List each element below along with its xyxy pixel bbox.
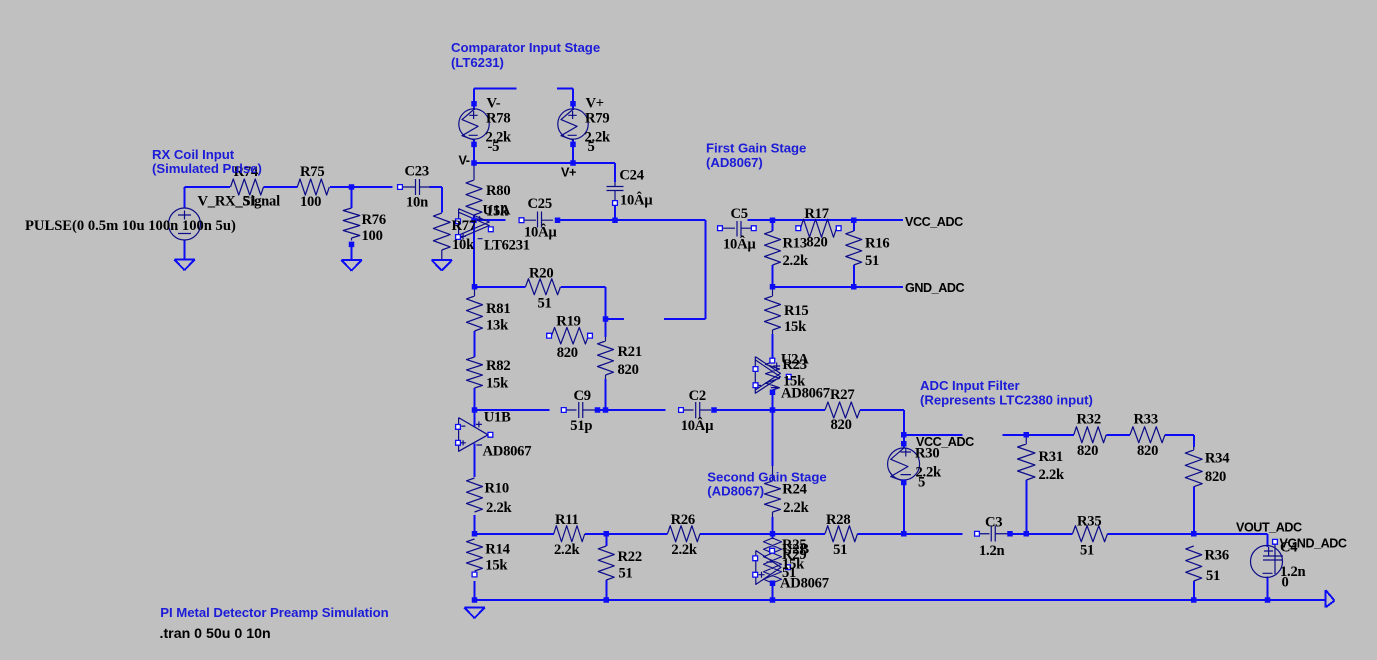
svg-text:R21: R21: [618, 344, 642, 360]
svg-text:2.2k: 2.2k: [554, 542, 580, 558]
svg-text:2.2k: 2.2k: [486, 500, 512, 516]
svg-text:51: 51: [1080, 543, 1094, 559]
svg-text:R13: R13: [783, 236, 807, 252]
svg-text:820: 820: [557, 345, 578, 361]
svg-text:R31: R31: [1039, 449, 1063, 465]
svg-text:51: 51: [865, 253, 879, 269]
svg-text:.tran 0 50u 0 10n: .tran 0 50u 0 10n: [160, 626, 271, 642]
svg-text:Comparator Input Stage: Comparator Input Stage: [451, 40, 600, 55]
svg-text:VOUT_ADC: VOUT_ADC: [1236, 521, 1302, 535]
svg-text:R76: R76: [362, 212, 386, 228]
svg-text:R33: R33: [1134, 412, 1158, 428]
svg-text:51: 51: [619, 566, 633, 582]
svg-text:2.2k: 2.2k: [1039, 467, 1065, 483]
svg-text:2.2k: 2.2k: [783, 253, 809, 269]
svg-text:VGND_ADC: VGND_ADC: [1280, 537, 1347, 551]
svg-text:R79: R79: [585, 111, 609, 127]
svg-text:100: 100: [362, 228, 383, 244]
svg-text:R19: R19: [556, 313, 580, 329]
svg-text:R26: R26: [671, 512, 695, 528]
svg-text:2.2k: 2.2k: [783, 500, 809, 516]
svg-text:(LT6231): (LT6231): [451, 55, 504, 70]
svg-text:820: 820: [618, 362, 639, 378]
svg-text:R35: R35: [1077, 514, 1101, 530]
svg-text:R80: R80: [486, 183, 510, 199]
svg-text:R82: R82: [486, 358, 510, 374]
svg-text:Second Gain Stage: Second Gain Stage: [707, 470, 826, 485]
svg-text:820: 820: [806, 235, 827, 251]
svg-text:R77: R77: [452, 218, 476, 234]
svg-text:-5: -5: [488, 139, 500, 155]
svg-text:10n: 10n: [406, 194, 428, 210]
svg-text:R81: R81: [486, 301, 510, 317]
svg-text:V+: V+: [586, 96, 604, 112]
svg-text:C2: C2: [689, 388, 706, 404]
svg-text:R36: R36: [1205, 548, 1229, 564]
svg-text:R78: R78: [486, 111, 510, 127]
svg-text:PI Metal Detector Preamp Simul: PI Metal Detector Preamp Simulation: [160, 605, 388, 620]
svg-text:C5: C5: [731, 206, 748, 222]
svg-text:R23: R23: [782, 357, 806, 373]
svg-text:ADC Input Filter: ADC Input Filter: [920, 378, 1020, 393]
svg-text:U1B: U1B: [484, 410, 511, 426]
svg-text:First Gain Stage: First Gain Stage: [706, 141, 806, 156]
svg-text:R22: R22: [618, 549, 642, 565]
svg-text:GND_ADC: GND_ADC: [905, 281, 964, 295]
svg-text:V+: V+: [561, 166, 576, 180]
svg-text:R14: R14: [485, 542, 510, 558]
svg-text:820: 820: [831, 417, 852, 433]
svg-text:R16: R16: [865, 236, 889, 252]
svg-text:VCC_ADC: VCC_ADC: [916, 435, 974, 449]
svg-text:R20: R20: [529, 266, 553, 282]
svg-text:(Simulated Pulse): (Simulated Pulse): [152, 161, 262, 176]
svg-text:R32: R32: [1077, 412, 1101, 428]
svg-text:C24: C24: [619, 168, 644, 184]
svg-text:R17: R17: [804, 206, 828, 222]
svg-text:R11: R11: [555, 512, 579, 528]
svg-text:R27: R27: [830, 387, 854, 403]
svg-text:100: 100: [300, 194, 321, 210]
svg-text:C25: C25: [528, 196, 552, 212]
svg-text:AD8067: AD8067: [781, 386, 830, 402]
svg-text:2.2k: 2.2k: [671, 542, 697, 558]
svg-text:820: 820: [1205, 469, 1226, 485]
svg-text:10k: 10k: [452, 237, 475, 253]
svg-text:1.2n: 1.2n: [979, 543, 1004, 559]
svg-text:51: 51: [538, 296, 552, 312]
svg-text:AD8067: AD8067: [483, 444, 532, 460]
svg-text:V-: V-: [487, 96, 501, 112]
svg-text:LT6231: LT6231: [484, 238, 530, 254]
svg-text:R75: R75: [300, 164, 324, 180]
svg-text:13k: 13k: [486, 318, 509, 334]
svg-text:U2B: U2B: [782, 542, 809, 558]
svg-text:10Âµ: 10Âµ: [681, 417, 714, 434]
svg-text:C23: C23: [405, 164, 429, 180]
svg-text:15k: 15k: [486, 376, 509, 392]
svg-text:R15: R15: [784, 303, 808, 319]
svg-text:PULSE(0 0.5m 10u 100n 100n 5u): PULSE(0 0.5m 10u 100n 100n 5u): [25, 218, 236, 234]
svg-text:C3: C3: [985, 515, 1002, 531]
svg-text:C9: C9: [574, 388, 591, 404]
svg-text:VCC_ADC: VCC_ADC: [905, 215, 963, 229]
svg-text:15k: 15k: [784, 319, 807, 335]
svg-text:(AD8067): (AD8067): [706, 155, 763, 170]
svg-text:820: 820: [1077, 443, 1098, 459]
svg-text:(Represents LTC2380 input): (Represents LTC2380 input): [920, 393, 1093, 408]
svg-text:51: 51: [1206, 568, 1220, 584]
svg-text:10Âµ: 10Âµ: [524, 224, 557, 241]
svg-text:V-: V-: [459, 154, 470, 168]
svg-text:10Âµ: 10Âµ: [723, 236, 756, 253]
svg-text:820: 820: [1137, 443, 1158, 459]
svg-text:10Âµ: 10Âµ: [620, 192, 653, 209]
svg-text:U1A: U1A: [483, 203, 511, 219]
svg-text:AD8067: AD8067: [780, 576, 829, 592]
svg-text:(AD8067): (AD8067): [707, 484, 764, 499]
svg-text:R28: R28: [826, 512, 850, 528]
svg-text:51: 51: [833, 542, 847, 558]
svg-text:V_RX_Signal: V_RX_Signal: [198, 194, 281, 210]
svg-text:15k: 15k: [485, 558, 508, 574]
svg-text:5: 5: [588, 139, 595, 155]
svg-text:R10: R10: [485, 481, 509, 497]
svg-text:0: 0: [1282, 575, 1289, 591]
svg-text:51p: 51p: [570, 418, 592, 434]
svg-text:5: 5: [918, 475, 925, 491]
svg-text:RX Coil Input: RX Coil Input: [152, 147, 235, 162]
svg-text:R34: R34: [1205, 451, 1230, 467]
